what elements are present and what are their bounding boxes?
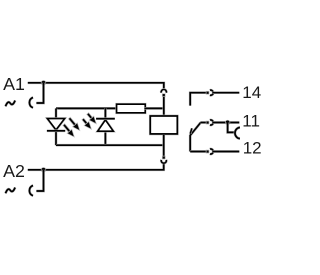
relay contact arm (pole): [190, 123, 200, 152]
contact arm tick: [190, 128, 192, 133]
AC symbol ~ at A1: [6, 101, 16, 107]
wire top rail of LED box: [56, 107, 116, 110]
terminal label A1: [3, 74, 25, 94]
wire left edge of LED box: [55, 108, 58, 145]
wire resistor to node: [144, 107, 163, 110]
terminal label 14: [242, 83, 261, 102]
LED D1 (left, cathode down): [47, 119, 65, 131]
svg-text:14: 14: [242, 83, 261, 102]
wire 11 left segment: [200, 121, 206, 124]
contact 14 fixed terminal stub: [190, 93, 206, 106]
wire A1 clamp branch: [36, 83, 43, 103]
wire 12 to label: [213, 150, 240, 153]
svg-text:A2: A2: [3, 161, 25, 181]
wire A2 run: [28, 164, 164, 170]
plug contact pin dot (bottom): [162, 156, 165, 159]
terminal label 11: [242, 111, 260, 130]
svg-text:12: 12: [243, 139, 262, 158]
plug contact pin dot 11: [206, 121, 209, 124]
plug contact pin dot 14: [206, 91, 209, 94]
LED D2 emission arrows: [82, 113, 96, 129]
plug contact arc 14: [210, 90, 213, 95]
AC symbol ~ at A2: [6, 188, 16, 194]
LED D2 (right, cathode up): [96, 119, 115, 132]
cage clamp contact A2: [29, 185, 33, 195]
wire A1 to top corner: [28, 83, 164, 89]
plug contact arc (bottom): [161, 160, 166, 163]
plug contact pin dot 12: [206, 150, 209, 153]
wire bottom rail of LED box: [56, 144, 164, 147]
wire coil bottom down: [162, 135, 165, 156]
plug contact arc 12: [210, 149, 213, 154]
cage clamp contact A1: [29, 97, 33, 107]
wire node to coil top: [162, 97, 165, 116]
wire A2 clamp branch: [36, 170, 43, 191]
wire right edge of LED box: [104, 108, 107, 145]
plug contact arc (top): [161, 89, 166, 92]
wire 11 to label: [213, 121, 240, 124]
LED D1 emission arrows: [63, 117, 80, 137]
resistor R1: [117, 104, 146, 113]
svg-text:A1: A1: [3, 74, 25, 94]
plug contact arc 11: [210, 120, 213, 125]
cage clamp contact 11: [235, 127, 240, 138]
plug contact pin dot (top): [162, 94, 165, 97]
node A1 junction dot: [41, 81, 46, 86]
wire 12 left segment: [190, 150, 206, 153]
relay coil K1: [150, 116, 177, 134]
wire 14 to label: [213, 91, 240, 94]
svg-text:11: 11: [242, 111, 260, 130]
terminal label A2: [3, 161, 25, 181]
node 11 junction dot: [225, 120, 230, 125]
terminal label 12: [243, 139, 262, 158]
node A2 junction dot: [41, 168, 46, 173]
wire 11 clamp branch: [228, 123, 235, 133]
